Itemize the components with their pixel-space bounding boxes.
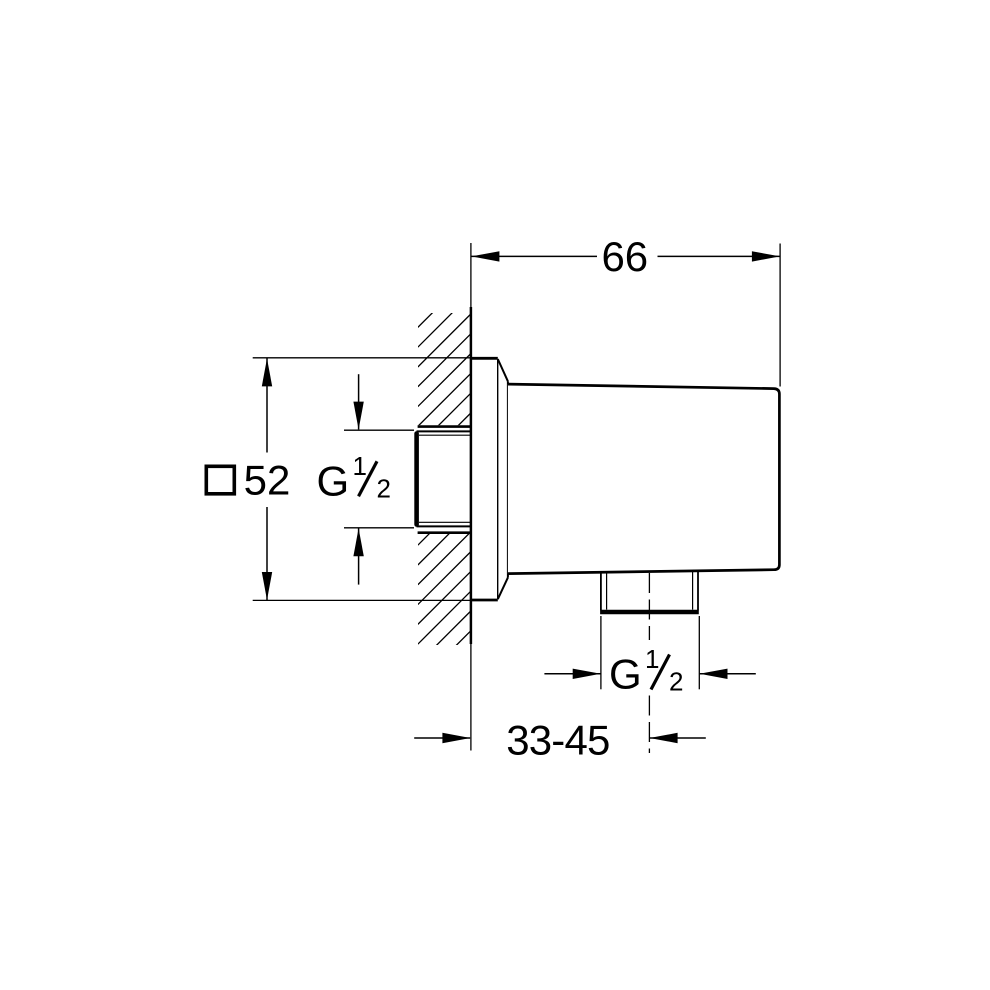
G 1/2 (outlet thread) dimension [544,616,755,689]
svg-text:66: 66 [601,233,648,280]
svg-text:G: G [317,457,350,504]
escutcheon flange [470,358,508,600]
svg-text:2: 2 [669,667,683,697]
dimension 52 (left) with square symbol [253,358,471,601]
outlet stub (threaded) [600,570,699,612]
G 1/2 (wall thread) dimension [344,374,414,584]
wall hatching [418,274,471,683]
svg-text:G: G [609,651,642,698]
svg-text:2: 2 [377,473,391,503]
svg-text:1: 1 [353,451,367,481]
union nut behind wall [417,427,471,533]
G 1/2 label (wall thread) [317,451,391,505]
svg-text:33-45: 33-45 [506,717,609,764]
outlet centreline [648,573,650,753]
svg-text:1: 1 [645,644,659,674]
wall line [470,243,472,751]
svg-text:52: 52 [244,457,291,504]
G 1/2 label (outlet thread) [609,644,683,698]
fitting body [508,384,780,573]
dimension 33-45 (bottom) [414,737,706,739]
dimension 66 (top) [471,244,780,387]
